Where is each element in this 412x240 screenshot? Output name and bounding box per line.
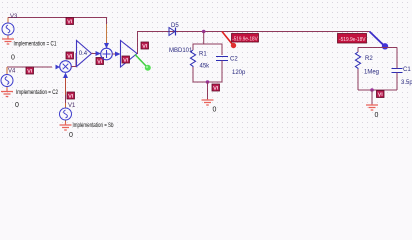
voltage source V3 pin stubs (7, 18, 9, 39)
wire V4 to multiplier (7, 66, 52, 68)
voltage source V3 (2, 23, 14, 35)
marker voltage probe (blue) (370, 32, 389, 50)
bias toggle square on V1 wire (67, 92, 75, 99)
marker voltage probe (green) (135, 55, 151, 71)
svg-text:1Meg: 1Meg (364, 70, 379, 76)
bias toggle square at R1C2 ground (212, 84, 220, 91)
svg-text:0: 0 (11, 55, 15, 62)
svg-text:Implementation = C2: Implementation = C2 (16, 90, 59, 96)
summer SUM (101, 48, 113, 60)
svg-text:0: 0 (69, 132, 73, 139)
wire rail to C2 (204, 44, 222, 55)
bias toggle square in buffer (122, 56, 130, 63)
wire branch to R1 C2 rail (193, 32, 204, 51)
multiplier MULT (60, 61, 72, 73)
capacitor C1 (392, 69, 403, 73)
ground 0 under V4 (1, 89, 13, 97)
bias toggle square at summer input (96, 58, 104, 65)
multiplier bottom input pin (65, 77, 67, 95)
svg-text:D5: D5 (171, 23, 179, 29)
bias toggle square on top wire (66, 18, 74, 25)
voltage source V1 pin stubs (65, 103, 67, 126)
ground 0 under V3 (2, 37, 14, 45)
bias label -519.9e-18V (left) (232, 34, 259, 43)
arrow into multiplier left (56, 65, 61, 70)
svg-text:V3: V3 (10, 14, 18, 20)
bias toggle square on V4 wire (26, 67, 34, 74)
arrow into summer left (96, 51, 102, 56)
svg-text:Implementation = Sb: Implementation = Sb (73, 123, 114, 129)
resistor R2 (355, 52, 360, 69)
svg-text:120p: 120p (232, 70, 246, 76)
junction at R1 branch (202, 30, 206, 34)
resistor R1 (190, 50, 195, 67)
junction on bottom rail (206, 80, 210, 84)
svg-text:R1: R1 (199, 52, 207, 58)
ground 0 under R1 C2 (202, 99, 214, 105)
diode D5 (169, 28, 176, 36)
buffer block (121, 41, 138, 68)
svg-text:0: 0 (375, 112, 379, 119)
voltage source V4 pin stubs (6, 67, 8, 91)
gain block 0.4 (77, 41, 92, 67)
svg-text:3.5p: 3.5p (401, 80, 412, 86)
voltage source V1 (60, 108, 72, 120)
svg-text:45k: 45k (200, 64, 211, 70)
bias toggle square on output riser (141, 42, 149, 49)
svg-text:MBD101: MBD101 (169, 48, 193, 54)
bias pointer line and dot (222, 32, 236, 49)
voltage source V4 (1, 75, 13, 87)
svg-text:R2: R2 (365, 56, 373, 62)
ground 0 under V1 (60, 123, 72, 131)
wire gain to summer (92, 53, 98, 55)
svg-text:-519.9e-18V: -519.9e-18V (339, 37, 366, 43)
svg-text:0.4: 0.4 (79, 51, 88, 57)
summer top input pin (106, 24, 108, 45)
bias toggle square at R2C1 ground (377, 91, 385, 98)
svg-text:-519.9e-18V: -519.9e-18V (232, 36, 258, 42)
wire buffer output to main net (137, 32, 370, 54)
wire summer to buffer (112, 53, 116, 55)
wire R1 down to bottom rail (193, 61, 222, 83)
wire V1 to multiplier (65, 95, 67, 103)
svg-text:C2: C2 (230, 57, 238, 63)
junction on tank bottom rail (370, 88, 374, 92)
svg-text:0: 0 (15, 102, 19, 109)
arrow out of summer (115, 52, 121, 57)
bias toggle square at multiplier output (66, 52, 74, 59)
wire to ground (207, 82, 209, 99)
wire R2 C1 top rail (358, 47, 397, 49)
ground 0 under R2 C1 (366, 104, 378, 110)
wire top net V3 to summer (8, 18, 107, 25)
wire rail to R2 (357, 48, 359, 53)
svg-text:V1: V1 (68, 103, 76, 109)
svg-text:Implementation = C1: Implementation = C1 (14, 42, 58, 48)
capacitor C2 (216, 57, 228, 61)
svg-text:0: 0 (213, 107, 217, 114)
svg-text:V4: V4 (8, 69, 16, 75)
wire C1 verticals and bottom rail (358, 48, 397, 91)
bias label -519.9e-18V (right) (338, 34, 367, 44)
arrow into summer top (104, 43, 109, 49)
arrow into multiplier bottom (63, 73, 68, 79)
wire to ground (371, 90, 373, 104)
wire multiplier output up to gain (71, 54, 76, 67)
svg-text:C1: C1 (403, 67, 411, 73)
